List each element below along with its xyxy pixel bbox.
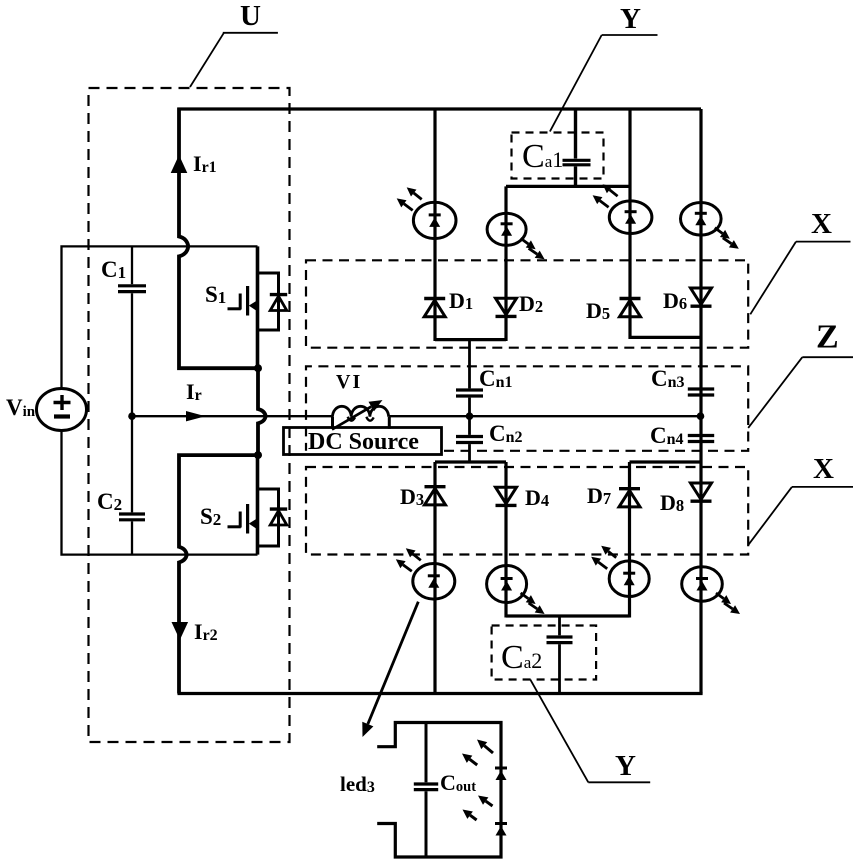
dashed box U (half-bridge cell) <box>89 88 290 742</box>
wire half-bridge midpoint link with jog <box>258 368 266 455</box>
capacitor Cn2 <box>456 416 483 462</box>
label D3 <box>400 484 424 509</box>
label D7 <box>587 483 611 508</box>
wire bracket D1-D2 <box>435 338 506 341</box>
node C1-C2 midpoint <box>128 412 136 420</box>
svg-text:Cn2: Cn2 <box>489 421 523 446</box>
label VI <box>336 371 362 393</box>
wire Ir1 branch with hop over input wire <box>179 108 258 369</box>
svg-text:led3: led3 <box>340 772 375 796</box>
label Cn3 <box>651 366 685 391</box>
svg-text:Cn4: Cn4 <box>650 423 684 448</box>
dashed box around Ca2 <box>492 626 596 680</box>
label Ir1 <box>193 151 217 176</box>
LED glyph upper in led3 detail <box>495 768 507 780</box>
dashed box X (upper multiplier cell) <box>306 260 748 347</box>
node Cn1-Cn2 midpoint <box>466 412 474 420</box>
label led3 <box>340 772 375 796</box>
svg-text:C1: C1 <box>101 257 126 282</box>
inductor VI (variable) <box>332 400 389 430</box>
label Vin <box>6 395 36 420</box>
light arrows lower in led3 detail <box>463 796 493 821</box>
svg-text:DC Source: DC Source <box>308 429 419 455</box>
diode D4 <box>496 487 517 505</box>
svg-text:Vin: Vin <box>6 395 36 420</box>
capacitor Ca1 <box>563 160 591 186</box>
label D1 <box>449 288 473 313</box>
svg-text:Cn1: Cn1 <box>479 366 513 391</box>
capacitor Cn1 <box>456 340 483 417</box>
wire Ir mid (C1-C2 midpoint to inductor) <box>132 415 333 417</box>
LED lamp bottom row col3 <box>591 546 649 597</box>
label Cn4 <box>650 423 684 448</box>
diode D3 <box>425 487 446 505</box>
wire column 2 lower (bracket to Ca2 bracket) <box>504 462 507 618</box>
LED lamp bottom row col4 <box>682 567 740 614</box>
label Y top with leader <box>550 3 658 132</box>
svg-text:D4: D4 <box>525 485 549 510</box>
wire Ca1 top column <box>574 108 577 159</box>
voltage source Vin <box>37 389 87 431</box>
diode D5 <box>620 299 641 317</box>
svg-text:Ir1: Ir1 <box>193 151 217 176</box>
wire S2 loop and Ir2 branch with hop <box>179 455 258 693</box>
LED lamp top row col1 <box>397 187 456 238</box>
label Z with leader <box>748 319 853 428</box>
current arrow Ir <box>186 411 206 421</box>
svg-text:Cn3: Cn3 <box>651 366 685 391</box>
svg-text:Y: Y <box>620 3 641 35</box>
wire bracket LED2p-LED3p <box>506 614 630 617</box>
capacitor Cout <box>414 723 438 858</box>
diode D1 <box>424 299 445 317</box>
dashed box around Ca1 <box>512 133 604 179</box>
wire column 1 (top rail to D1 bracket) <box>433 108 436 342</box>
LED lamp top row col3 <box>593 184 652 233</box>
svg-text:Ir2: Ir2 <box>194 619 218 644</box>
diode D6 <box>691 288 712 306</box>
wire bottom input (Vin minus rail) <box>62 431 258 555</box>
label S2 <box>200 504 221 529</box>
wire bracket Cn4 bottom <box>630 460 702 463</box>
node half-bridge lower (S2 drain) <box>254 451 262 459</box>
node half-bridge upper (S1 source) <box>254 364 262 372</box>
svg-text:Cout: Cout <box>440 770 476 795</box>
label Cn2 <box>489 421 523 446</box>
transistor S2 (MOSFET with body diode) <box>228 455 288 554</box>
label S1 <box>205 282 226 307</box>
light arrows upper in led3 detail <box>462 740 493 766</box>
svg-text:Ca2: Ca2 <box>501 639 542 676</box>
svg-text:D8: D8 <box>660 490 684 515</box>
label X upper with leader <box>750 208 850 314</box>
svg-text:X: X <box>813 453 834 485</box>
svg-text:D3: D3 <box>400 484 424 509</box>
label Ir <box>186 379 202 404</box>
svg-text:X: X <box>811 208 832 240</box>
transistor S1 (MOSFET with body diode) <box>228 246 288 368</box>
wire bracket Ca1 bottom <box>506 185 630 188</box>
svg-text:S2: S2 <box>200 504 221 529</box>
svg-text:D7: D7 <box>587 483 611 508</box>
wire column 1 lower (bracket to bottom rail) <box>433 462 436 694</box>
wire column 2 (Ca1 bracket to D2 bracket) <box>504 186 507 341</box>
capacitor Ca2 <box>547 616 573 694</box>
svg-text:D2: D2 <box>519 291 543 316</box>
capacitor C1 <box>118 246 146 416</box>
label D8 <box>660 490 684 515</box>
led3 detail outline <box>377 723 501 858</box>
wire bracket Cn2 bottom <box>435 460 506 463</box>
diode D8 <box>691 483 712 501</box>
svg-text:D5: D5 <box>586 298 610 323</box>
label Y bottom with leader <box>530 680 650 783</box>
LED lamp top row col2 <box>487 213 544 259</box>
label Ca2 <box>501 639 542 676</box>
svg-text:Ca1: Ca1 <box>522 138 563 175</box>
label U with leader <box>190 0 278 87</box>
current arrow Ir2 <box>172 622 189 640</box>
DC Source box <box>284 428 442 456</box>
label D5 <box>586 298 610 323</box>
wire Ir mid (inductor to Cn junctions) <box>389 415 700 417</box>
label C2 <box>97 489 122 514</box>
capacitor C2 <box>119 416 145 555</box>
wire bracket D5 to right column <box>630 336 701 339</box>
capacitor Cn3 <box>688 389 714 395</box>
LED lamp top row col4 <box>681 203 739 249</box>
LED lamp bottom row col1 <box>396 548 455 599</box>
wire column 3 (top rail to D5 bracket) <box>628 108 631 340</box>
svg-text:D6: D6 <box>663 288 687 313</box>
capacitor Cn4 <box>688 436 714 442</box>
wire column 3 lower (bracket to Ca2 bracket) <box>628 462 631 618</box>
label D6 <box>663 288 687 313</box>
svg-text:U: U <box>240 0 261 32</box>
diode D7 <box>619 489 640 507</box>
svg-text:Y: Y <box>615 750 636 782</box>
label Ca1 <box>522 138 563 175</box>
svg-text:Z: Z <box>816 319 839 356</box>
label D4 <box>525 485 549 510</box>
label X lower with leader <box>748 453 853 545</box>
svg-text:D1: D1 <box>449 288 473 313</box>
label Ir2 <box>194 619 218 644</box>
node Cn3-Cn4 midpoint <box>697 412 705 420</box>
dashed box Z (capacitor row cell) <box>306 366 748 451</box>
LED glyph lower in led3 detail <box>495 824 507 836</box>
svg-text:Ir: Ir <box>186 379 202 404</box>
label C1 <box>101 257 126 282</box>
wire right column rail <box>699 109 702 694</box>
dashed box X (lower multiplier cell) <box>306 467 748 555</box>
wire top input (Vin plus rail) <box>62 246 258 387</box>
svg-text:VI: VI <box>336 371 362 393</box>
LED lamp bottom row col2 <box>487 566 545 615</box>
label D2 <box>519 291 543 316</box>
arrow LED1p to led3 detail <box>362 602 418 737</box>
svg-text:C2: C2 <box>97 489 122 514</box>
svg-text:S1: S1 <box>205 282 226 307</box>
wire top rail <box>178 107 702 110</box>
label Cout <box>440 770 476 795</box>
label Cn1 <box>479 366 513 391</box>
wire bottom rail <box>178 692 703 695</box>
diode D2 <box>496 298 517 316</box>
current arrow Ir1 <box>171 155 188 173</box>
